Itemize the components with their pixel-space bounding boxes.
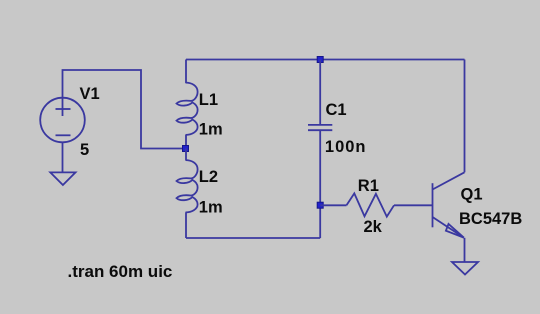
svg-text:L1: L1 — [199, 91, 218, 109]
svg-text:2k: 2k — [364, 218, 383, 236]
svg-text:L2: L2 — [199, 168, 218, 186]
wire Q1 collector — [464, 60, 466, 173]
svg-text:.tran 60m uic: .tran 60m uic — [68, 262, 173, 281]
svg-text:R1: R1 — [358, 177, 379, 195]
inductor L1 — [177, 60, 198, 149]
ground (under V1) — [50, 172, 75, 185]
wire junction to R1 — [320, 204, 346, 206]
svg-text:V1: V1 — [80, 85, 100, 103]
ground (under Q1) — [452, 262, 478, 275]
svg-text:Q1: Q1 — [461, 186, 483, 204]
wire V1 plus to inductor tap — [63, 70, 184, 149]
voltage source V1 — [40, 98, 85, 173]
inductor L2 — [177, 149, 198, 239]
junction (L1/L2 tap) — [183, 146, 189, 152]
transistor Q1 — [433, 172, 465, 237]
svg-text:1m: 1m — [199, 121, 223, 139]
svg-text:BC547B: BC547B — [459, 210, 522, 228]
capacitor C1 — [308, 60, 332, 239]
wire R1 to Q1 base — [394, 204, 433, 206]
svg-text:100n: 100n — [325, 138, 367, 156]
wire Q1 emitter to ground — [464, 238, 466, 262]
junction (C1 / R1 tee) — [317, 202, 323, 208]
svg-text:5: 5 — [80, 141, 89, 159]
junction (top rail / C1) — [317, 57, 323, 63]
svg-text:1m: 1m — [199, 199, 223, 217]
svg-text:C1: C1 — [326, 101, 347, 119]
resistor R1 — [347, 193, 395, 216]
wire bottom rail — [186, 237, 320, 239]
wire top rail — [186, 59, 465, 61]
